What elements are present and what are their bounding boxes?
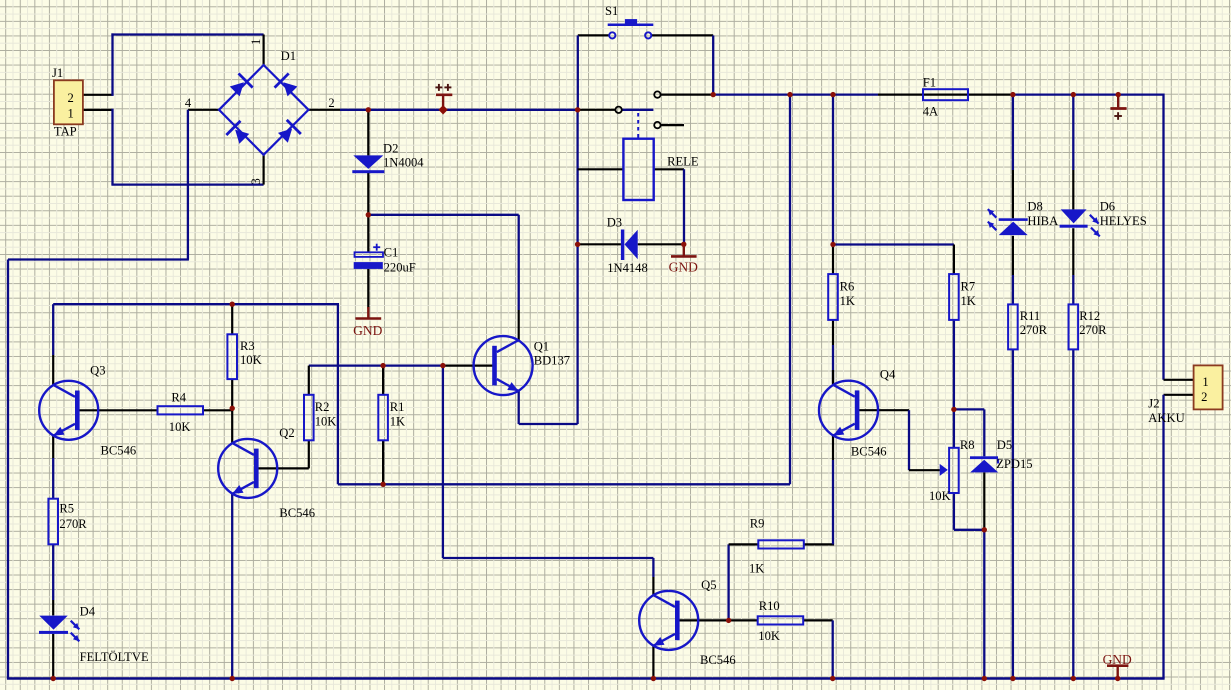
- svg-text:TAP: TAP: [54, 125, 77, 139]
- svg-text:J2: J2: [1148, 397, 1159, 411]
- svg-text:1N4148: 1N4148: [607, 261, 648, 275]
- svg-text:2: 2: [328, 96, 334, 110]
- svg-text:D2: D2: [383, 142, 398, 156]
- svg-text:GND: GND: [353, 323, 382, 338]
- svg-text:AKKU: AKKU: [1148, 411, 1184, 425]
- svg-text:R9: R9: [750, 517, 765, 531]
- svg-text:270R: 270R: [59, 517, 87, 531]
- svg-text:R6: R6: [840, 280, 855, 294]
- svg-text:1: 1: [68, 107, 74, 121]
- svg-text:R1: R1: [390, 400, 405, 414]
- svg-text:GND: GND: [669, 260, 698, 275]
- svg-text:Q2: Q2: [279, 426, 294, 440]
- svg-text:D6: D6: [1100, 200, 1115, 214]
- svg-text:F1: F1: [923, 76, 936, 90]
- svg-text:D3: D3: [607, 216, 622, 230]
- svg-text:4: 4: [185, 96, 192, 110]
- svg-text:ZPD15: ZPD15: [996, 457, 1032, 471]
- svg-text:D4: D4: [80, 605, 96, 619]
- svg-text:R12: R12: [1079, 309, 1100, 323]
- svg-text:1K: 1K: [840, 294, 855, 308]
- svg-text:1K: 1K: [749, 562, 764, 576]
- svg-text:1K: 1K: [961, 294, 976, 308]
- svg-text:R2: R2: [315, 400, 330, 414]
- svg-text:R3: R3: [240, 339, 255, 353]
- svg-text:BD137: BD137: [534, 354, 570, 368]
- svg-text:J1: J1: [52, 66, 63, 80]
- svg-text:270R: 270R: [1020, 323, 1048, 337]
- svg-text:10K: 10K: [929, 489, 951, 503]
- svg-text:D8: D8: [1027, 200, 1042, 214]
- svg-text:Q3: Q3: [90, 364, 105, 378]
- svg-text:10K: 10K: [315, 415, 337, 429]
- svg-text:BC546: BC546: [101, 444, 137, 458]
- svg-text:R8: R8: [960, 438, 975, 452]
- svg-text:C1: C1: [384, 246, 399, 260]
- svg-text:1K: 1K: [390, 415, 405, 429]
- svg-text:R5: R5: [59, 502, 74, 516]
- svg-text:BC546: BC546: [279, 506, 315, 520]
- svg-text:10K: 10K: [758, 629, 780, 643]
- svg-text:2: 2: [68, 91, 74, 105]
- svg-text:R4: R4: [171, 391, 186, 405]
- svg-text:HIBA: HIBA: [1027, 214, 1058, 228]
- svg-text:R7: R7: [961, 280, 976, 294]
- svg-text:10K: 10K: [240, 353, 262, 367]
- svg-text:Q5: Q5: [701, 578, 716, 592]
- svg-text:GND: GND: [1103, 652, 1132, 667]
- svg-text:Q1: Q1: [534, 340, 549, 354]
- svg-text:S1: S1: [605, 4, 618, 18]
- svg-text:220uF: 220uF: [384, 261, 416, 275]
- svg-text:BC546: BC546: [851, 445, 887, 459]
- svg-text:HELYES: HELYES: [1100, 214, 1147, 228]
- svg-text:D1: D1: [281, 49, 296, 63]
- svg-text:BC546: BC546: [700, 653, 736, 667]
- svg-text:4A: 4A: [923, 105, 938, 119]
- svg-text:1: 1: [1202, 375, 1208, 389]
- svg-text:10K: 10K: [169, 420, 191, 434]
- svg-text:FELTÖLTVE: FELTÖLTVE: [80, 650, 149, 664]
- svg-text:R10: R10: [759, 599, 780, 613]
- svg-text:1N4004: 1N4004: [383, 156, 424, 170]
- svg-text:1: 1: [249, 39, 263, 45]
- svg-text:RELE: RELE: [667, 155, 699, 169]
- svg-text:D5: D5: [997, 438, 1012, 452]
- svg-text:Q4: Q4: [880, 368, 896, 382]
- svg-text:270R: 270R: [1079, 323, 1107, 337]
- svg-text:2: 2: [1201, 390, 1207, 404]
- svg-text:R11: R11: [1020, 309, 1041, 323]
- svg-text:3: 3: [249, 178, 263, 184]
